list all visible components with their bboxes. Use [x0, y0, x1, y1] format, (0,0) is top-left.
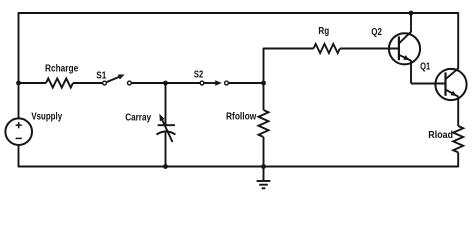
node junction: Q2 collector on top rail [409, 11, 414, 16]
transistor Q1 (NPN) [435, 68, 466, 100]
wire follower node down to Rfollow [263, 83, 265, 110]
wire Q2 emitter down [410, 60, 412, 83]
wire Rcharge to S1 [73, 82, 103, 84]
transistor Q2 (NPN) [389, 31, 420, 64]
resistor Rg [314, 44, 340, 53]
svg-text:S1: S1 [96, 70, 106, 81]
wire Rg run left lead [264, 48, 314, 50]
switch S2 (closed, arrow blade) [200, 80, 228, 85]
voltage source Vsupply [5, 118, 32, 145]
wire S2 to follower node [228, 82, 263, 84]
node junction: Carray bottom [163, 164, 168, 169]
svg-text:Rg: Rg [318, 26, 329, 37]
svg-text:Rfollow: Rfollow [226, 112, 256, 123]
ground [257, 167, 271, 189]
svg-text:Q1: Q1 [420, 61, 430, 72]
capacitor Carray (variable) [157, 114, 176, 142]
wire left rail upper [18, 12, 20, 118]
wire lead from left rail to Rcharge [19, 82, 47, 84]
node junction: Carray top tap [163, 81, 168, 86]
wire top rail [19, 12, 459, 14]
wire bottom rail [19, 166, 459, 168]
wire S1 to S2 [131, 82, 200, 84]
svg-text:Rcharge: Rcharge [45, 64, 79, 75]
wire left rail lower [18, 145, 20, 167]
resistor Rcharge [46, 78, 73, 87]
wire right rail (top rail down to Q1 collector) [457, 12, 459, 68]
wire Carray bottom lead [165, 132, 167, 167]
wire follower node up to Rg run [263, 48, 265, 83]
resistor Rfollow [259, 110, 269, 137]
wire Q2 collector lead [410, 13, 412, 32]
node junction: follower tap [261, 81, 266, 86]
resistor Rload [453, 126, 463, 152]
svg-text:S2: S2 [194, 69, 204, 80]
svg-text:Rload: Rload [428, 130, 453, 141]
wire Q1 emitter down to Rload [457, 96, 459, 126]
svg-text:Carray: Carray [125, 112, 151, 123]
svg-text:Vsupply: Vsupply [31, 112, 62, 123]
node junction: left rail / charge branch [16, 81, 21, 86]
svg-text:Q2: Q2 [371, 27, 382, 38]
wire Rfollow bottom lead [263, 137, 265, 167]
switch S1 (open, arrow blade) [103, 75, 132, 85]
wire Q2 emitter to Q1 base [411, 83, 446, 85]
node junction: ground node [261, 164, 266, 169]
wire Carray top lead [165, 83, 167, 125]
wire Rg to Q2 base [340, 48, 399, 50]
wire Rload bottom lead [457, 152, 459, 167]
